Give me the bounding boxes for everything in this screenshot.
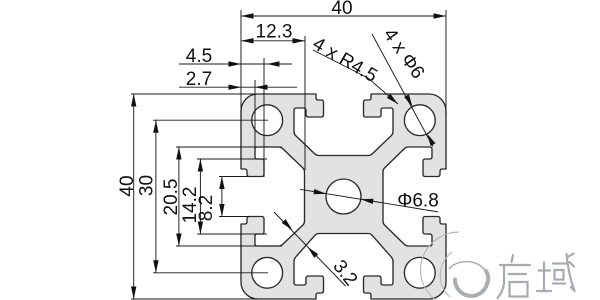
svg-text:8.2: 8.2: [196, 195, 217, 221]
svg-text:40: 40: [331, 0, 352, 19]
dimension 12.3 (slot depth) with extension line and arrows: [304, 36, 306, 170]
svg-text:4 x Φ6: 4 x Φ6: [379, 25, 429, 83]
svg-text:2.7: 2.7: [186, 69, 212, 90]
dimension 14.2 (slot cavity behind lips) with extension lines and arrows: [197, 158, 267, 160]
dimension 2.7 (wall thickness) with extension line and outside arrows: [254, 80, 256, 150]
dimension 20.5 (cavity width) with extension lines and arrows: [176, 146, 282, 148]
svg-text:12.3: 12.3: [256, 22, 293, 43]
dimension 30 (corner hole centre distance) with extension lines and arrows: [153, 119, 268, 121]
svg-text:4.5: 4.5: [186, 46, 212, 67]
svg-text:3.2: 3.2: [328, 256, 361, 290]
dimension 40 (top overall width) with extension lines and arrows: [240, 10, 242, 112]
dimension 8.2 (slot opening) with extension lines and arrows: [219, 176, 250, 178]
aluminum profile cross-section (40x40 T-slot extrusion) with corner holes and centre bore: [241, 94, 446, 299]
leader Phi6.8 (centre bore diameter) with arrows on circle: [300, 189, 438, 212]
logo Q swoosh with bold crescent (watermark): [449, 262, 486, 273]
svg-text:4 x R4.5: 4 x R4.5: [309, 33, 381, 87]
svg-text:30: 30: [137, 175, 158, 196]
leader 4 x Phi6 (corner holes) with arrow through top-right hole: [372, 34, 433, 147]
dimension 40 (left overall height) with extension lines and arrows: [131, 93, 257, 95]
leader 3.2 (web thickness) with arrows across web: [274, 212, 346, 286]
svg-text:20.5: 20.5: [161, 179, 182, 216]
svg-text:Φ6.8: Φ6.8: [397, 191, 439, 212]
leader 4 x R4.5 (corner fillet radius) with arrow: [313, 50, 398, 104]
logo orbit arcs (watermark): [420, 232, 460, 300]
logo characters Qi Yu (watermark): [499, 255, 576, 300]
svg-text:40: 40: [117, 175, 138, 196]
dimension 4.5 (lip depth) with extension line and outside arrows: [263, 58, 265, 177]
